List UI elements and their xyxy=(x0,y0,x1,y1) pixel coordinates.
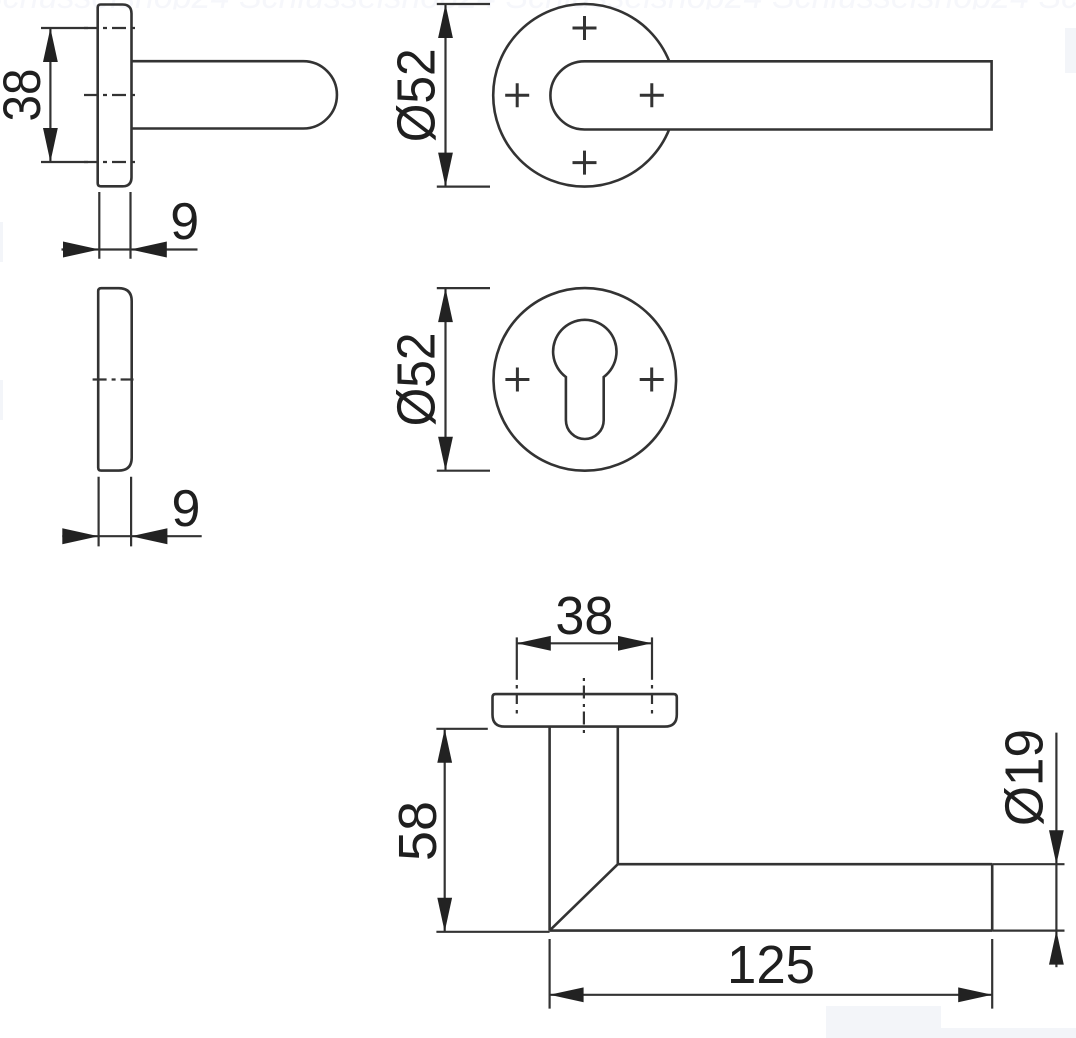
neck chamfer xyxy=(550,864,618,930)
rose circle xyxy=(493,4,676,187)
screw cross top xyxy=(505,16,664,175)
neck right edge xyxy=(616,727,619,865)
screw cross bottom xyxy=(573,151,597,175)
escutcheon plate side profile xyxy=(98,288,132,470)
svg-text:Ø52: Ø52 xyxy=(387,332,447,426)
neck left edge xyxy=(548,727,551,931)
dimension 38 (view1) xyxy=(41,28,88,162)
lever top line xyxy=(618,863,992,866)
centerline view3 xyxy=(93,378,134,380)
lever end xyxy=(991,864,994,930)
dimension 58 (view5) xyxy=(436,729,549,932)
svg-text:9: 9 xyxy=(172,480,201,538)
screw cross right xyxy=(640,83,664,107)
centerlines view1 xyxy=(84,28,138,162)
centerline middle xyxy=(84,94,138,96)
dimension D19 (view5) xyxy=(992,733,1064,968)
escutcheon circle xyxy=(494,288,677,471)
dimension 9 (view3) xyxy=(62,477,201,547)
svg-text:Ø19: Ø19 xyxy=(995,729,1055,826)
svg-text:58: 58 xyxy=(388,801,448,861)
euro profile keyhole xyxy=(553,320,616,439)
rose plate side profile xyxy=(98,5,132,187)
dimension 125 (view5) xyxy=(550,939,993,1009)
svg-text:125: 125 xyxy=(727,935,815,995)
handle profile (side) xyxy=(132,61,337,128)
svg-text:Schüsselshop24 Schlüsselshop24: Schüsselshop24 Schlüsselshop24 Schlüssel… xyxy=(0,0,1076,16)
screw cross left (view4) xyxy=(505,368,663,392)
centerlines view5 xyxy=(517,637,652,679)
dimension D52 (view4) xyxy=(437,288,490,471)
rose plate (bottom view) xyxy=(493,694,677,727)
dimension 38 (view5) xyxy=(517,642,652,644)
screw cross right (view4) xyxy=(640,368,664,392)
svg-text:Ø52: Ø52 xyxy=(387,48,447,142)
svg-text:9: 9 xyxy=(170,193,199,251)
lever bottom line xyxy=(550,929,993,932)
dimension 9 (view1) xyxy=(62,192,198,259)
screw cross left xyxy=(505,83,529,107)
centerline top xyxy=(84,27,138,29)
svg-text:38: 38 xyxy=(0,69,52,122)
centerline bottom xyxy=(84,161,138,163)
svg-text:38: 38 xyxy=(555,586,613,646)
dimension D52 (view2) xyxy=(437,4,490,187)
lever (front) xyxy=(550,61,991,129)
